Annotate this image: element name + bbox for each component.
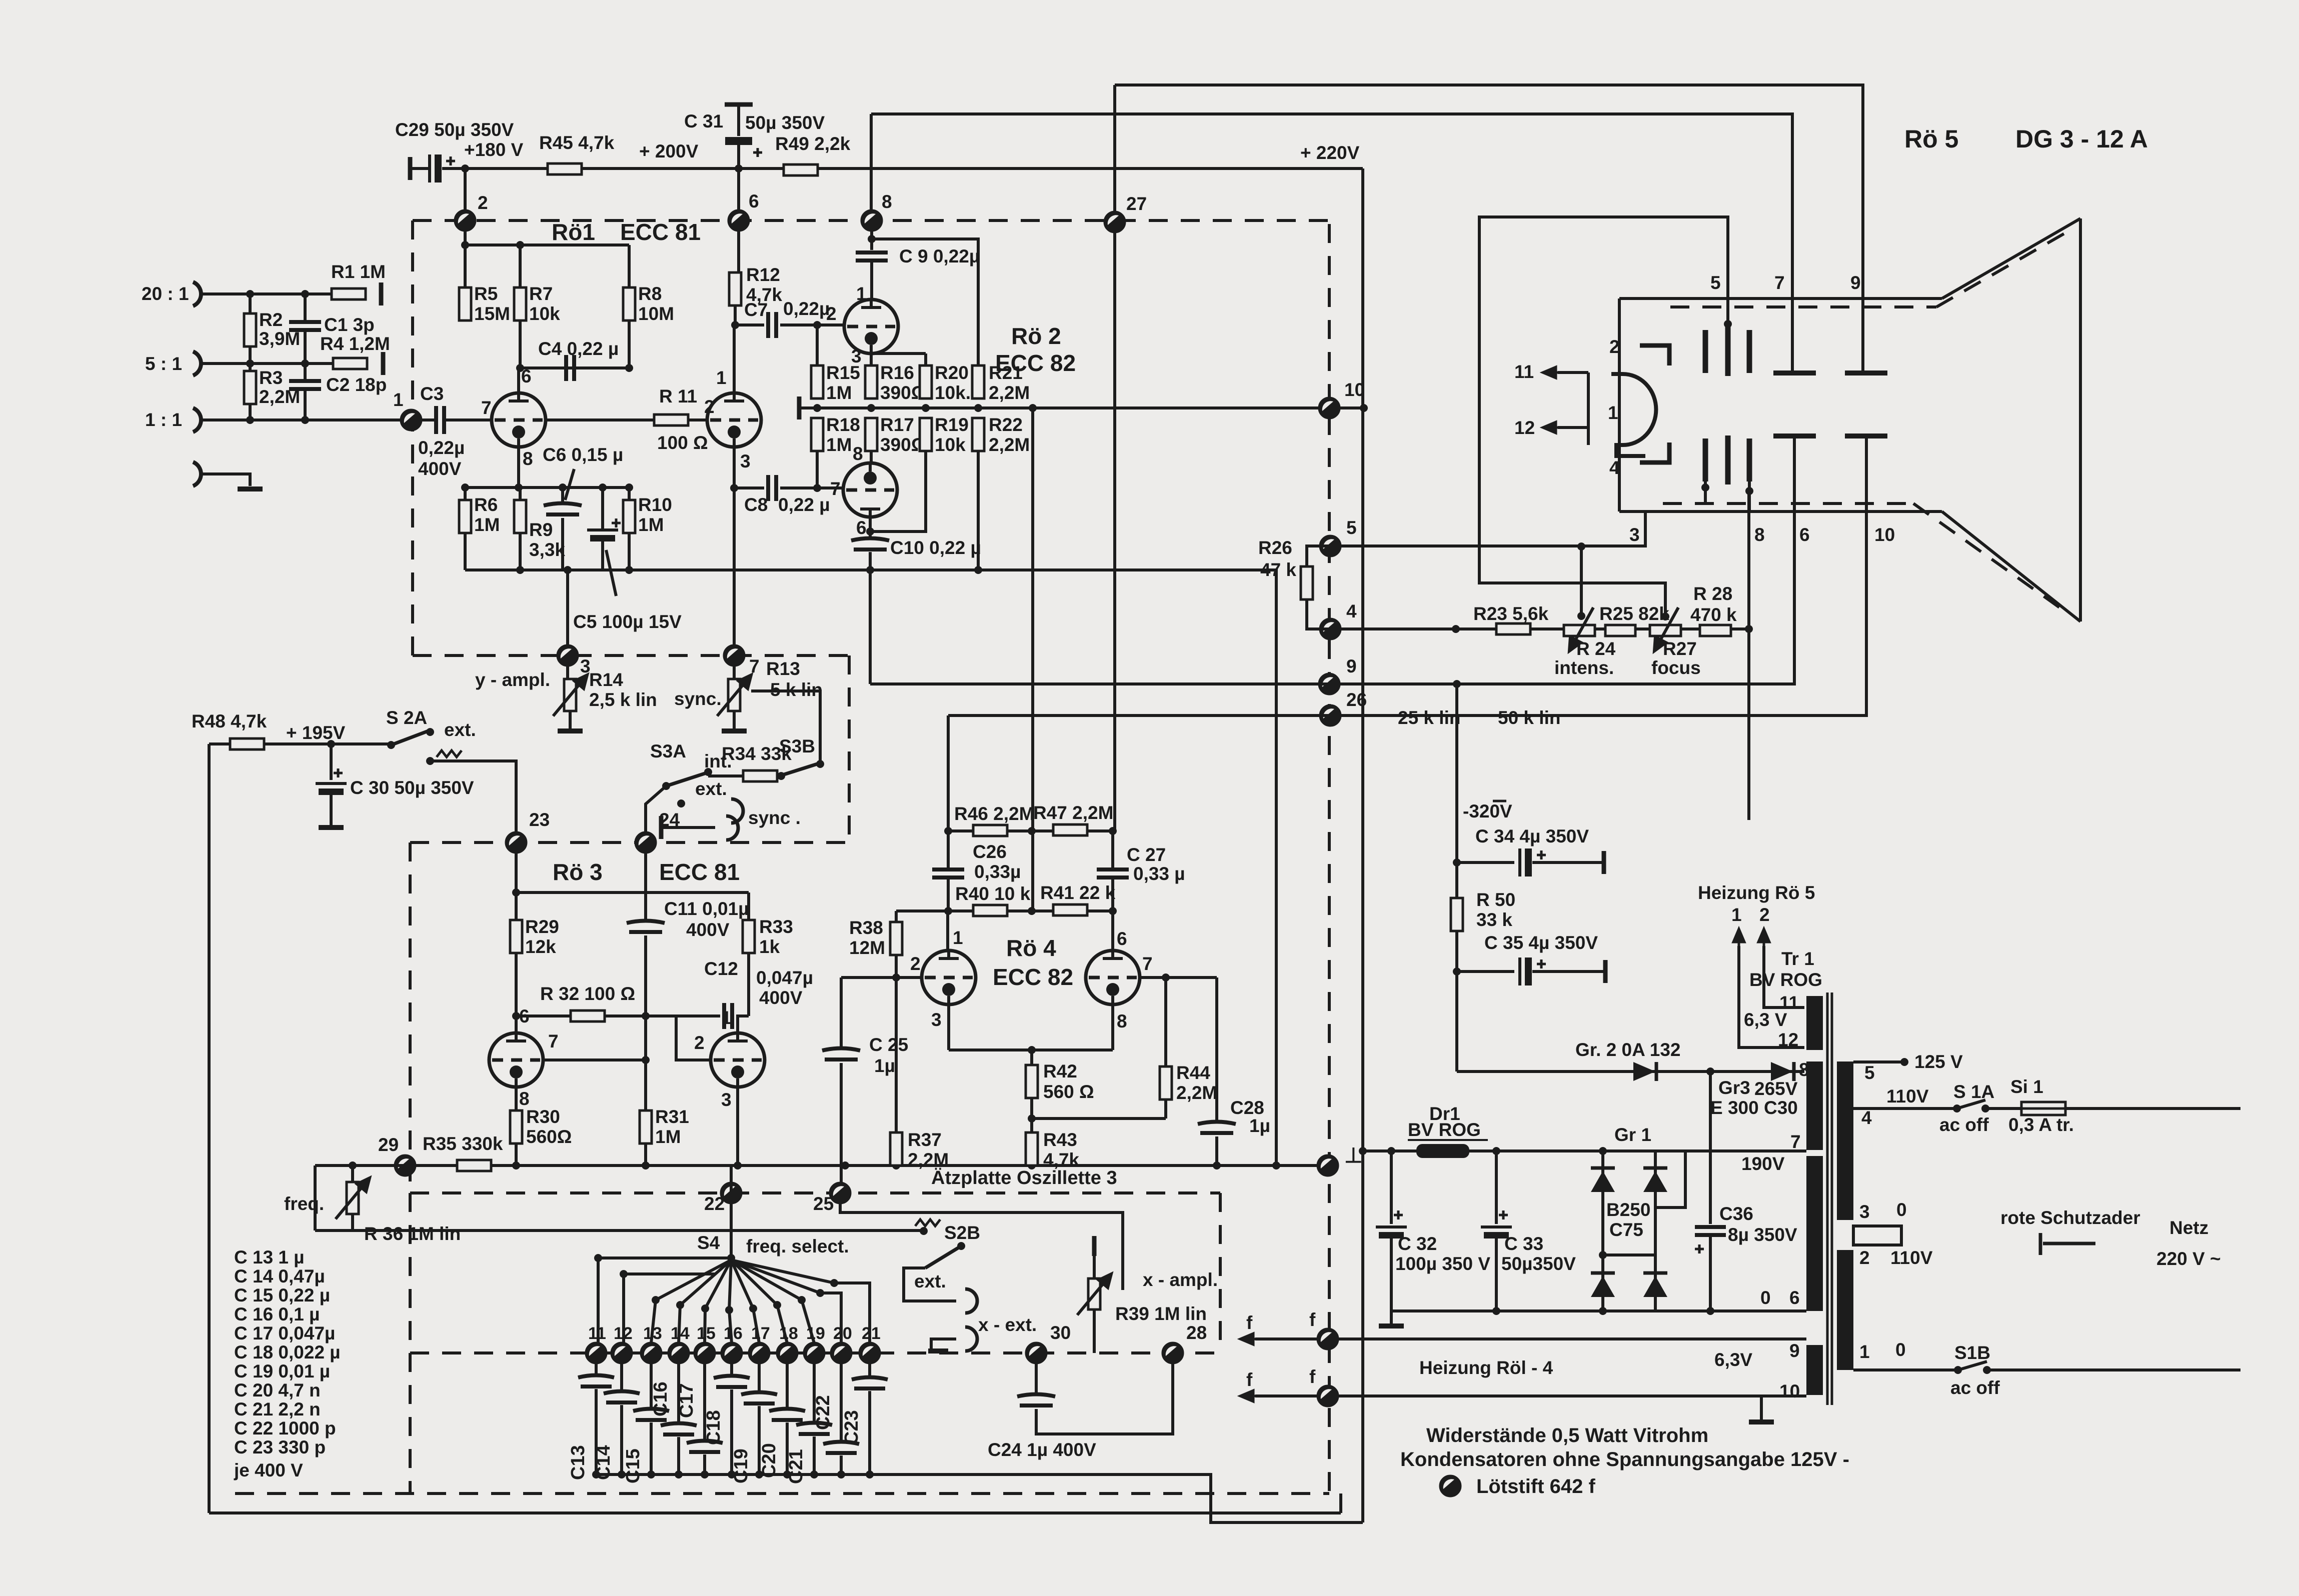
- svg-text:R3: R3: [259, 367, 283, 388]
- svg-text:R43: R43: [1043, 1129, 1077, 1150]
- svg-text:8: 8: [519, 1088, 530, 1109]
- svg-text:ext.: ext.: [914, 1271, 946, 1291]
- arrow CRT pin 11: [1543, 367, 1558, 378]
- svg-text:S 2A: S 2A: [386, 707, 427, 728]
- svg-text:50µ350V: 50µ350V: [1501, 1253, 1576, 1274]
- svg-text:Heizung Röl - 4: Heizung Röl - 4: [1419, 1357, 1553, 1378]
- CRT anode bar lower: [1703, 438, 1708, 481]
- resistor R19: [920, 418, 932, 451]
- svg-text:0: 0: [1895, 1339, 1906, 1360]
- wire cathode Roe2a to R20: [871, 352, 926, 355]
- svg-text:R 50: R 50: [1476, 889, 1515, 910]
- solder pin 23: [506, 832, 526, 852]
- resistor R7: [514, 287, 526, 320]
- CRT plate X1: [1773, 433, 1816, 438]
- svg-text:C 20 4,7 n: C 20 4,7 n: [234, 1380, 321, 1400]
- svg-text:7: 7: [481, 397, 492, 418]
- connector spare input: [193, 462, 201, 486]
- svg-text:7: 7: [749, 656, 760, 676]
- wire heater f1: [1255, 1337, 1806, 1340]
- wire S3A to R34: [708, 774, 743, 777]
- svg-text:R1 1M: R1 1M: [331, 261, 386, 282]
- capacitor C8: [768, 475, 776, 501]
- svg-text:C1 3p: C1 3p: [324, 314, 375, 335]
- junction: [349, 1161, 357, 1169]
- wire node7 to R13: [733, 665, 736, 679]
- capacitor C6: [544, 503, 582, 515]
- resistor R43: [1026, 1132, 1038, 1165]
- wire node26 line to CRT pin 10: [948, 436, 1866, 715]
- svg-text:6: 6: [749, 191, 759, 211]
- resistor R28: [1700, 625, 1731, 636]
- switch S4 wiper blade: [680, 1260, 731, 1305]
- junction C14 bus: [618, 1470, 626, 1478]
- switch S1B contact 2: [1983, 1366, 1991, 1374]
- svg-text:C 30 50µ 350V: C 30 50µ 350V: [350, 777, 474, 798]
- wire S4 contact to pin: [753, 1308, 759, 1343]
- wire R30 bottom: [515, 1143, 518, 1165]
- capacitor C19: [741, 1392, 777, 1404]
- wire cathode top bus: [465, 486, 629, 489]
- svg-text:Widerstände 0,5 Watt Vi: Widerstände 0,5 Watt Vitrohm: [1426, 1424, 1708, 1446]
- wire C36 top: [1709, 1071, 1712, 1224]
- capacitor C5: [587, 530, 618, 541]
- wire cathode bus Roe4: [949, 1048, 1113, 1051]
- svg-text:C 17 0,047µ: C 17 0,047µ: [234, 1323, 335, 1343]
- svg-text:0: 0: [1896, 1199, 1907, 1220]
- svg-text:4,7k: 4,7k: [1043, 1149, 1079, 1170]
- connector 5:1 input: [193, 351, 201, 375]
- svg-text:400V: 400V: [418, 458, 462, 479]
- wire R32 row part1: [516, 1014, 643, 1017]
- switch S3B pivot: [777, 772, 785, 780]
- svg-text:30: 30: [1050, 1322, 1071, 1343]
- wire node30 to C24: [1035, 1363, 1038, 1395]
- ground R14: [558, 728, 583, 733]
- potentiometer R14: [564, 679, 576, 711]
- wire node26 line to R46 row: [947, 715, 950, 831]
- svg-text:13: 13: [643, 1324, 662, 1343]
- svg-text:3: 3: [1629, 524, 1640, 545]
- svg-text:S3B: S3B: [779, 736, 815, 756]
- svg-text:1: 1: [1731, 904, 1742, 925]
- wire to C8: [734, 486, 764, 489]
- arrow heater 1: [1733, 929, 1744, 946]
- switch S3B contact: [816, 760, 824, 768]
- resistor R30: [510, 1110, 522, 1143]
- svg-text:8µ 350V: 8µ 350V: [1728, 1224, 1797, 1245]
- svg-text:C18: C18: [703, 1410, 724, 1445]
- capacitor C23: [852, 1377, 888, 1389]
- svg-text:16: 16: [724, 1324, 743, 1343]
- svg-text:R46 2,2M: R46 2,2M: [954, 803, 1034, 824]
- resistor R23: [1496, 623, 1530, 634]
- arrow heater f1: [1240, 1333, 1255, 1344]
- wire node25 to R39 wiper: [840, 1203, 1123, 1290]
- contact S2B chopper: [920, 1227, 928, 1235]
- wire 1:1 to node 1: [202, 418, 403, 421]
- wire bridge left rail: [1601, 1151, 1604, 1311]
- svg-text:5: 5: [1710, 272, 1721, 293]
- junction: [564, 566, 572, 574]
- triode Roe1a: [492, 393, 546, 447]
- switch S4 contact 12: [620, 1270, 628, 1278]
- junction: [730, 484, 738, 492]
- resistor R45: [548, 163, 582, 174]
- junction: [1359, 1147, 1367, 1155]
- wire R20 top: [924, 353, 927, 366]
- svg-text:47 k: 47 k: [1260, 559, 1296, 580]
- wire R36 left leg: [314, 1165, 317, 1230]
- switch S4 contact: [676, 1301, 684, 1309]
- svg-text:freq. select.: freq. select.: [746, 1236, 849, 1256]
- connector ext sync arc: [731, 799, 743, 823]
- resistor R29: [510, 920, 522, 953]
- svg-text:C 22 1000 p: C 22 1000 p: [234, 1418, 336, 1438]
- switch S2B blade: [925, 1246, 961, 1268]
- svg-text:C75: C75: [1609, 1219, 1643, 1240]
- wire node2 to R5: [464, 220, 467, 287]
- resistor R33: [743, 920, 755, 953]
- terminal C29 left: [408, 157, 413, 180]
- svg-text:0: 0: [1760, 1287, 1771, 1308]
- resistor R40: [973, 905, 1007, 916]
- svg-text:Rö1: Rö1: [552, 219, 595, 245]
- CRT anode bar: [1703, 330, 1708, 373]
- resistor R17: [865, 418, 877, 451]
- junction: [512, 888, 520, 896]
- svg-text:R40 10 k: R40 10 k: [955, 883, 1031, 904]
- svg-text:C10 0,22 µ: C10 0,22 µ: [890, 537, 981, 558]
- wire C30 bottom: [330, 795, 333, 826]
- junction C20 bus: [783, 1470, 791, 1478]
- svg-text:+ 195V: + 195V: [286, 722, 346, 743]
- junction: [974, 404, 982, 412]
- wire node8 to R21: [872, 239, 978, 365]
- choke Dr1: [1416, 1144, 1469, 1158]
- capacitor C15: [633, 1409, 669, 1420]
- svg-text:R44: R44: [1176, 1062, 1210, 1083]
- svg-text:R4 1,2M: R4 1,2M: [320, 333, 390, 354]
- solder pin 24: [636, 832, 656, 852]
- resistor R4: [333, 358, 367, 369]
- solder pin 30: [1026, 1343, 1046, 1363]
- dashed boundary Rö1 left: [411, 220, 414, 655]
- svg-text:1k: 1k: [759, 936, 780, 957]
- junction: [625, 566, 633, 574]
- solder pin 17: [749, 1343, 769, 1363]
- svg-text:400V: 400V: [686, 919, 730, 940]
- wire C3 to grid Roe1a: [444, 418, 492, 421]
- resistor R21: [972, 365, 984, 398]
- junction: [1109, 907, 1117, 915]
- switch S4 contact: [816, 1289, 824, 1297]
- svg-text:8: 8: [1754, 524, 1765, 545]
- potentiometer R39: [1088, 1278, 1100, 1309]
- svg-text:4: 4: [1861, 1107, 1872, 1128]
- wire R10 top: [628, 487, 631, 500]
- wire node9 line to CRT pin 6: [870, 436, 1794, 684]
- resistor R8: [623, 287, 635, 320]
- junction: [461, 483, 469, 491]
- solder pin 14: [669, 1343, 689, 1363]
- svg-text:190V: 190V: [1741, 1153, 1785, 1174]
- svg-text:22: 22: [704, 1193, 725, 1214]
- svg-text:10: 10: [1344, 379, 1365, 400]
- resistor R46: [973, 825, 1007, 836]
- wire R6 bottom: [464, 533, 467, 570]
- junction: [246, 290, 254, 298]
- svg-text:C17: C17: [676, 1383, 697, 1418]
- capacitor C26: [932, 869, 964, 877]
- CRT anode bar: [1747, 330, 1752, 373]
- switch S1A contact 2: [1981, 1104, 1989, 1112]
- wire S3A to node 24: [646, 786, 666, 832]
- svg-text:C29 50µ 350V: C29 50µ 350V: [395, 119, 514, 140]
- wire cathode Roe3b to bus: [736, 1087, 739, 1165]
- wire capacitor bottom bus: [596, 1474, 1363, 1522]
- dashed boundary Roe3 top: [410, 841, 849, 844]
- wire C10 to bottom bus: [869, 552, 872, 570]
- wire S4 contact to pin: [802, 1300, 814, 1343]
- svg-text:C 21 2,2 n: C 21 2,2 n: [234, 1399, 321, 1419]
- svg-text:R8: R8: [638, 283, 662, 304]
- svg-text:1M: 1M: [826, 382, 852, 403]
- wire heater 1 to pin 12: [1739, 946, 1804, 1047]
- wire to C27: [1111, 831, 1114, 868]
- capacitor C22: [823, 1442, 859, 1453]
- wire cathode Roe1a: [517, 447, 520, 487]
- svg-text:0,047µ: 0,047µ: [756, 967, 813, 988]
- wire CRT heater link: [1587, 372, 1590, 445]
- junction: [1213, 1161, 1221, 1169]
- junction: [642, 1012, 650, 1020]
- wire anode bar stub: [1704, 481, 1707, 503]
- switch S1B contact 1: [1954, 1366, 1962, 1374]
- switch S4 contact: [701, 1304, 709, 1312]
- wire C12 to R33: [736, 1014, 749, 1017]
- wire S4 contact to pin: [679, 1305, 680, 1343]
- svg-text:6: 6: [1789, 1287, 1800, 1308]
- svg-text:3: 3: [740, 451, 751, 471]
- switch S3A contact: [704, 768, 712, 776]
- svg-text:24: 24: [659, 809, 680, 830]
- svg-text:C 13 1 µ: C 13 1 µ: [234, 1247, 305, 1267]
- svg-text:C19: C19: [731, 1448, 752, 1483]
- resistor R48: [230, 738, 264, 749]
- Tr1 tap 3-0: [1853, 1226, 1901, 1245]
- switch S3A pivot: [662, 782, 670, 790]
- fuse Si1: [2021, 1102, 2065, 1115]
- wire bridge tie: [1603, 1253, 1655, 1256]
- Tr1 winding 11-12: [1806, 996, 1823, 1050]
- junction: [1599, 1251, 1607, 1259]
- svg-text:R48 4,7k: R48 4,7k: [192, 711, 267, 731]
- svg-text:8: 8: [523, 448, 533, 469]
- resistor R6: [459, 500, 471, 533]
- wire grid Roe2a to R15: [816, 325, 819, 366]
- svg-text:2: 2: [826, 303, 837, 324]
- wire S1A to Si1: [1985, 1107, 2021, 1110]
- svg-text:100µ 350 V: 100µ 350 V: [1395, 1253, 1490, 1274]
- wire R2 top: [249, 294, 252, 313]
- junction C21 bus: [810, 1470, 818, 1478]
- solder pin f2: [1318, 1386, 1338, 1406]
- svg-text:BV ROG: BV ROG: [1408, 1119, 1481, 1140]
- wire 20:1 to R1: [202, 292, 331, 295]
- wire pin to C15: [650, 1363, 653, 1410]
- dashed boundary sync box right: [848, 655, 851, 842]
- wire R33 bottom: [747, 953, 750, 1016]
- leader line C5: [606, 550, 616, 596]
- wire -320V rail: [1455, 684, 1458, 1071]
- junction: [1029, 404, 1037, 412]
- svg-text:1 : 1: 1 : 1: [145, 409, 182, 430]
- svg-text:1: 1: [721, 1007, 732, 1028]
- wire R9 bottom: [519, 533, 522, 570]
- wire to R46 row: [947, 715, 950, 831]
- switch S4 contact: [773, 1301, 781, 1309]
- wire node5 to R26: [1307, 546, 1330, 567]
- wire R8 top: [628, 245, 631, 287]
- wire C2 top: [304, 363, 307, 381]
- svg-text:1M: 1M: [655, 1126, 681, 1147]
- junction: [246, 359, 254, 367]
- junction anode lower: [1701, 483, 1709, 491]
- svg-text:10: 10: [1779, 1381, 1800, 1401]
- solder pin 28: [1163, 1343, 1183, 1363]
- wire C5 bottom: [601, 541, 604, 570]
- junction C16 bus: [675, 1470, 683, 1478]
- resistor R31: [640, 1110, 652, 1143]
- svg-text:C20: C20: [759, 1443, 780, 1478]
- svg-text:C 23 330 p: C 23 330 p: [234, 1437, 326, 1457]
- capacitor C7: [768, 312, 776, 338]
- svg-text:6,3 V: 6,3 V: [1744, 1009, 1787, 1030]
- svg-text:R 32 100 Ω: R 32 100 Ω: [540, 983, 635, 1004]
- resistor R5: [459, 287, 471, 320]
- terminal C35: [1603, 960, 1608, 983]
- svg-text:f: f: [1309, 1366, 1316, 1387]
- junction: [1453, 858, 1461, 866]
- svg-text:Kondensatoren ohne Spannungs: Kondensatoren ohne Spannungsangabe 125V …: [1400, 1448, 1849, 1470]
- connector sync arc: [726, 816, 738, 840]
- svg-text:10M: 10M: [638, 303, 674, 324]
- wire R7 to C4 row: [519, 320, 522, 368]
- wire focus feed / first anode: [1479, 217, 1728, 616]
- svg-text:C 32: C 32: [1398, 1233, 1437, 1254]
- triode Roe2b: [843, 463, 897, 517]
- wire anode Roe4b: [1111, 911, 1114, 951]
- svg-text:5 : 1: 5 : 1: [145, 353, 182, 374]
- svg-text:15M: 15M: [474, 303, 510, 324]
- dashed CRT inner funnel bottom: [1913, 503, 2064, 611]
- triode Roe4b: [1086, 950, 1140, 1004]
- wire C32 top: [1390, 1151, 1393, 1224]
- svg-text:2,2M: 2,2M: [1176, 1082, 1217, 1103]
- svg-text:R 28: R 28: [1693, 583, 1732, 604]
- switch S1A contact 1: [1953, 1104, 1961, 1112]
- svg-text:S4: S4: [697, 1232, 720, 1253]
- svg-text:C 18 0,022 µ: C 18 0,022 µ: [234, 1342, 341, 1362]
- switch S4 route pin 12: [624, 1272, 715, 1275]
- potentiometer R24: [1564, 625, 1595, 636]
- wire CRT pin 11: [1558, 371, 1588, 374]
- plus C33: [1499, 1210, 1508, 1219]
- wire frame to R48: [209, 742, 230, 745]
- resistor R2: [244, 313, 256, 346]
- svg-text:C11 0,01µ: C11 0,01µ: [664, 898, 749, 919]
- wire R44 top: [1164, 977, 1167, 1067]
- svg-text:Heizung Rö 5: Heizung Rö 5: [1698, 882, 1815, 903]
- wire C25 to node 25: [840, 1063, 843, 1183]
- capacitor C9: [856, 252, 888, 260]
- wire heater 2 to pin 11: [1764, 946, 1804, 1007]
- wire C17 to bottom bus: [703, 1454, 706, 1474]
- svg-text:freq.: freq.: [284, 1193, 324, 1214]
- svg-text:3,3k: 3,3k: [529, 539, 565, 560]
- svg-text:125 V: 125 V: [1914, 1051, 1963, 1072]
- wire frame bottom edge: [209, 1511, 1341, 1514]
- plus C30: [334, 768, 343, 777]
- svg-text:R16: R16: [880, 362, 914, 383]
- terminal sync input: [659, 816, 664, 839]
- junction: [867, 404, 875, 412]
- junction: [516, 364, 524, 372]
- svg-text:sync .: sync .: [748, 807, 801, 828]
- switch S4 wiper blade: [731, 1260, 802, 1300]
- wire S4 contact to pin 12: [622, 1274, 625, 1343]
- protective earth symbol: [2040, 1233, 2095, 1255]
- svg-text:ext.: ext.: [695, 778, 727, 799]
- junction: [1028, 1114, 1036, 1122]
- capacitor C10: [851, 538, 889, 550]
- terminal mid bus left: [797, 396, 802, 419]
- resistor R16: [865, 365, 877, 398]
- svg-text:14: 14: [671, 1324, 690, 1343]
- svg-text:R 11: R 11: [659, 386, 697, 406]
- wire C13 to bottom bus: [595, 1389, 598, 1474]
- svg-text:Tr 1: Tr 1: [1781, 948, 1814, 969]
- wire pin1 to C3: [421, 418, 436, 421]
- dashed boundary pins to node 28: [875, 1351, 1220, 1354]
- resistor R47: [1053, 824, 1087, 835]
- svg-text:1: 1: [856, 283, 867, 304]
- svg-text:R35 330k: R35 330k: [423, 1133, 503, 1154]
- svg-text:R29: R29: [525, 916, 559, 937]
- junction R24 wiper: [1577, 612, 1585, 620]
- junction: [1453, 967, 1461, 975]
- solder pin f1: [1318, 1329, 1338, 1349]
- wire sync input: [661, 826, 715, 829]
- resistor R11: [654, 414, 688, 425]
- svg-text:2: 2: [910, 953, 921, 974]
- svg-text:Rö 2: Rö 2: [1011, 323, 1061, 349]
- junction: [974, 566, 982, 574]
- junction pin5 anode: [1724, 320, 1732, 328]
- svg-text:ac off: ac off: [1950, 1377, 2000, 1398]
- solder pin 29: [395, 1155, 415, 1175]
- wire CRT body bottom: [1619, 510, 1942, 513]
- wire x-ext stub: [931, 1339, 956, 1350]
- resistor R42: [1026, 1065, 1038, 1098]
- svg-text:7: 7: [1790, 1131, 1801, 1152]
- svg-text:1µ: 1µ: [874, 1055, 895, 1076]
- svg-text:DG 3 - 12 A: DG 3 - 12 A: [2015, 125, 2148, 153]
- wire S4 contact to pin: [729, 1310, 732, 1343]
- CRT plate Y2: [1845, 370, 1887, 375]
- wire node 27 riser: [1113, 85, 1116, 212]
